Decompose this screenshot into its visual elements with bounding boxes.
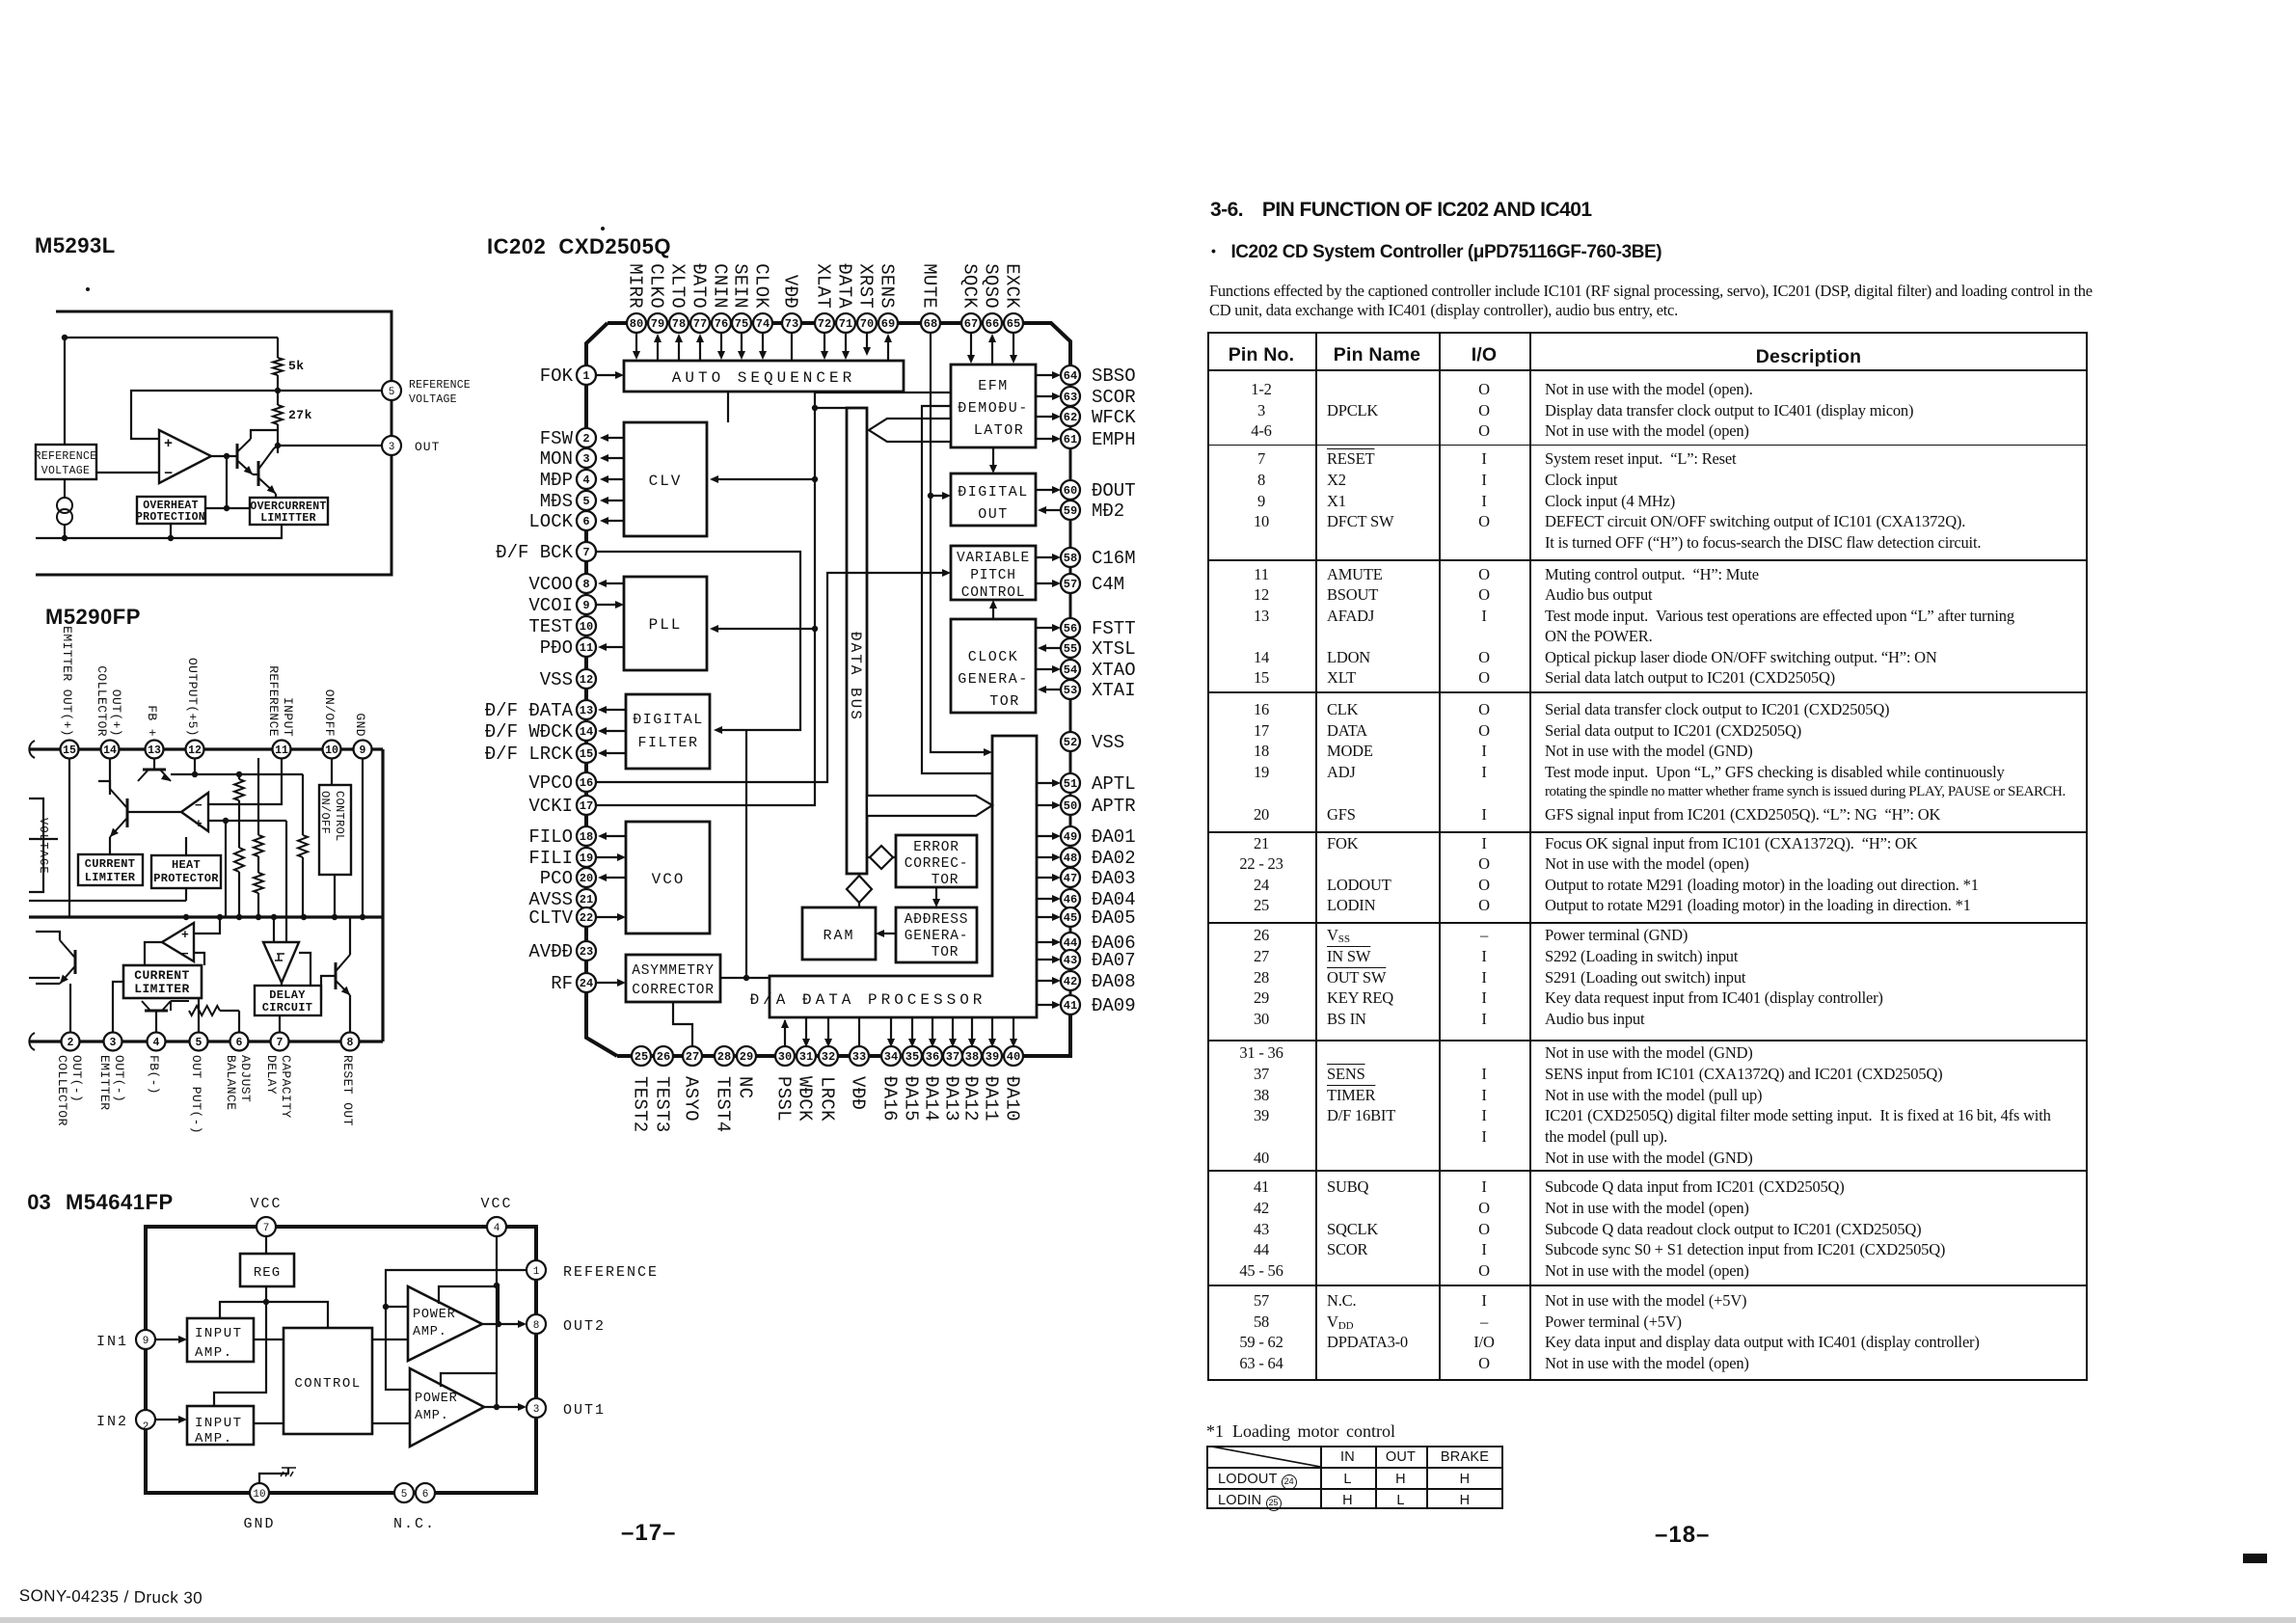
svg-text:COLLECTOR: COLLECTOR xyxy=(95,665,109,737)
pin 6 BALANCE xyxy=(230,1033,249,1051)
label ĐA15 xyxy=(901,1076,922,1122)
svg-text:VCOO: VCOO xyxy=(528,574,573,595)
pin 7 Đ/F BCK xyxy=(577,542,596,561)
label ĐA07 xyxy=(1092,950,1136,971)
svg-text:30: 30 xyxy=(778,1050,792,1064)
label ĐATO xyxy=(689,263,710,309)
pin 5 REFERENCE VOLTAGE xyxy=(382,379,471,406)
svg-text:–17–: –17– xyxy=(621,1520,676,1546)
label ĐOUT xyxy=(1092,480,1136,501)
svg-text:M54641FP: M54641FP xyxy=(66,1190,174,1214)
wire ASYO elbow xyxy=(673,1002,692,1047)
svg-text:Đ/F WĐCK: Đ/F WĐCK xyxy=(485,721,574,743)
svg-text:LATOR: LATOR xyxy=(974,422,1025,439)
svg-text:43: 43 xyxy=(1064,954,1077,967)
svg-text:AMP.: AMP. xyxy=(413,1325,447,1339)
svg-text:−: − xyxy=(195,798,203,813)
wire ref box to op-amp minus xyxy=(96,472,159,473)
svg-text:26: 26 xyxy=(657,1050,670,1064)
label EXCK xyxy=(1002,263,1023,309)
svg-text:CONTROL: CONTROL xyxy=(961,585,1026,601)
svg-text:24: 24 xyxy=(580,977,593,990)
pin 78 XLTO xyxy=(669,313,689,333)
pin 5 OUT PUT(-) xyxy=(190,1033,208,1051)
svg-text:POWER: POWER xyxy=(415,1392,458,1406)
svg-text:SBSO: SBSO xyxy=(1092,365,1136,387)
svg-text:VARIABLE: VARIABLE xyxy=(957,551,1030,566)
pin 36 ĐA14 xyxy=(923,1046,942,1066)
label pin 6 xyxy=(224,1055,253,1110)
svg-text:INPUT: INPUT xyxy=(195,1326,243,1341)
wires clock generator 56-53 xyxy=(1036,624,1062,693)
pin 69 SENS xyxy=(878,313,898,333)
svg-text:76: 76 xyxy=(715,317,728,331)
svg-text:5k: 5k xyxy=(288,359,305,373)
pin 3 EMITTER xyxy=(104,1033,122,1051)
wire pin17 VCKI net xyxy=(596,392,951,805)
svg-text:65: 65 xyxy=(1007,317,1020,331)
svg-text:57: 57 xyxy=(1064,578,1077,591)
wires EFM demod outputs 64-61 xyxy=(1036,371,1061,443)
wire bottom pin rail xyxy=(617,1005,1070,1056)
pin 8 OUT2 xyxy=(527,1314,606,1335)
label ĐA06 xyxy=(1092,933,1136,954)
pin 57 C4M xyxy=(1061,574,1080,593)
svg-text:FILO: FILO xyxy=(528,826,573,848)
pin 70 XRST xyxy=(857,313,877,333)
svg-text:PLL: PLL xyxy=(649,616,683,634)
wire schmitt input xyxy=(274,821,286,942)
pin 37 ĐA13 xyxy=(943,1046,962,1066)
pin 55 XTSL xyxy=(1061,638,1080,658)
svg-text:28: 28 xyxy=(717,1050,731,1064)
wire left branch xyxy=(64,338,66,498)
svg-text:OUT2: OUT2 xyxy=(563,1318,606,1335)
svg-text:HEAT: HEAT xyxy=(172,858,201,872)
label ĐA08 xyxy=(1092,971,1136,992)
svg-text:ĐA03: ĐA03 xyxy=(1092,868,1136,889)
svg-text:TEST4: TEST4 xyxy=(713,1076,734,1133)
pin 71 ĐATA xyxy=(836,313,855,333)
bus arrow EFM to data bus xyxy=(869,419,951,442)
power amp 1 xyxy=(408,1286,482,1361)
svg-text:IN1: IN1 xyxy=(96,1334,128,1350)
svg-text:72: 72 xyxy=(818,317,831,331)
pin 61 EMPH xyxy=(1061,429,1080,448)
label ĐA10 xyxy=(1002,1076,1023,1122)
wire on/off control stubs xyxy=(332,758,335,917)
wire data bus top link xyxy=(812,405,847,411)
pin 35 ĐA15 xyxy=(903,1046,922,1066)
svg-text:AVĐĐ: AVĐĐ xyxy=(528,941,573,962)
svg-text:VOLTAGE: VOLTAGE xyxy=(37,818,50,875)
svg-text:2: 2 xyxy=(68,1037,74,1049)
svg-text:48: 48 xyxy=(1064,852,1077,865)
pin 5 N.C. xyxy=(394,1483,414,1502)
svg-text:AMP.: AMP. xyxy=(195,1431,233,1447)
pin 28 TEST4 xyxy=(715,1046,734,1066)
svg-text:Đ/F BCK: Đ/F BCK xyxy=(496,542,573,563)
loading motor table xyxy=(1206,1446,1503,1509)
svg-text:42: 42 xyxy=(1064,975,1077,988)
resistor R4 horizontal xyxy=(171,1001,239,1015)
svg-text:34: 34 xyxy=(884,1050,898,1064)
svg-text:77: 77 xyxy=(693,317,707,331)
pin 1 REFERENCE xyxy=(527,1260,659,1281)
asymmetry corrector block xyxy=(626,955,720,1002)
CLV block xyxy=(624,422,707,536)
svg-text:N.C.: N.C. xyxy=(393,1516,436,1532)
label TEST2 xyxy=(630,1076,651,1133)
svg-text:TEST2: TEST2 xyxy=(630,1076,651,1133)
svg-text:GND: GND xyxy=(353,713,367,737)
node pin3 junction xyxy=(275,443,383,448)
svg-text:OUT(+): OUT(+) xyxy=(109,690,123,737)
wires VCO pins 18 19 20 22 xyxy=(596,832,626,921)
pin 9 GND xyxy=(354,741,372,759)
pin 12 OUTPUT(+5) xyxy=(186,741,204,759)
diamond connector to error corrector xyxy=(867,846,896,869)
svg-text:RESET OUT: RESET OUT xyxy=(340,1055,355,1126)
wire MUTE net xyxy=(928,332,992,756)
pin 4 MĐP xyxy=(577,470,596,489)
svg-text:ĐA10: ĐA10 xyxy=(1002,1076,1023,1122)
transistor Q1 xyxy=(237,430,278,474)
svg-text:47: 47 xyxy=(1064,872,1077,885)
svg-text:VOLTAGE: VOLTAGE xyxy=(409,393,457,406)
label Đ/F LRCK xyxy=(485,744,574,765)
pin 60 ĐOUT xyxy=(1061,480,1080,500)
svg-text:OUTPUT(+5): OUTPUT(+5) xyxy=(185,658,200,737)
op-amp A1 xyxy=(159,430,211,483)
pin 80 MIRR xyxy=(627,313,646,333)
svg-text:ĐA13: ĐA13 xyxy=(941,1076,962,1122)
svg-text:3: 3 xyxy=(389,442,395,453)
svg-text:PSSL: PSSL xyxy=(773,1076,795,1122)
svg-text:23: 23 xyxy=(580,945,593,959)
svg-text:9: 9 xyxy=(143,1336,149,1347)
svg-text:M5290FP: M5290FP xyxy=(45,605,141,629)
svg-text:OUT PUT(-): OUT PUT(-) xyxy=(189,1055,203,1134)
svg-text:XTSL: XTSL xyxy=(1092,638,1136,660)
wire mid ground rail xyxy=(29,914,383,920)
wires variable pitch 58 57 xyxy=(1036,554,1061,587)
pin 65 EXCK xyxy=(1004,313,1023,333)
pin 43 ĐA07 xyxy=(1061,950,1080,969)
pin 16 VPCO xyxy=(577,772,596,792)
pin 7 DELAY xyxy=(271,1033,289,1051)
svg-text:REFERENCE: REFERENCE xyxy=(409,379,471,392)
svg-text:MIRR: MIRR xyxy=(625,263,646,309)
pin 32 LRCK xyxy=(819,1046,838,1066)
svg-text:27k: 27k xyxy=(288,408,312,422)
wire pin7 BCK net xyxy=(596,552,800,734)
svg-text:SQSO: SQSO xyxy=(981,263,1002,309)
pin 7 VCC xyxy=(250,1196,282,1236)
label NC xyxy=(735,1076,756,1098)
svg-text:PROTECTION: PROTECTION xyxy=(136,511,205,524)
label LOCK xyxy=(528,511,573,532)
wire IN2 arrow xyxy=(155,1416,187,1423)
svg-text:MĐP: MĐP xyxy=(540,470,573,491)
label ASYO xyxy=(681,1076,702,1122)
wire pin16 VPCO net xyxy=(596,569,951,782)
wires pins 67 66 65 to EFM demodulator xyxy=(967,332,1017,365)
pin 42 ĐA08 xyxy=(1061,971,1080,990)
section heading xyxy=(1210,199,1591,222)
pin 11 PĐO xyxy=(577,637,596,657)
svg-text:Đ/F LRCK: Đ/F LRCK xyxy=(485,744,574,765)
svg-text:AĐĐRESS: AĐĐRESS xyxy=(905,912,969,928)
input amp block 1 xyxy=(187,1318,254,1362)
RAM block xyxy=(802,907,876,960)
label EMPH xyxy=(1092,429,1136,450)
svg-text:ĐA11: ĐA11 xyxy=(981,1076,1002,1122)
svg-text:ĐA02: ĐA02 xyxy=(1092,848,1136,869)
svg-text:32: 32 xyxy=(822,1050,835,1064)
svg-text:EMITTER: EMITTER xyxy=(97,1055,112,1110)
pin 2 COLLECTOR xyxy=(62,1033,80,1051)
wire delay to pin7 xyxy=(279,1015,281,1033)
svg-text:RF: RF xyxy=(551,973,573,994)
svg-text:22: 22 xyxy=(580,911,593,925)
svg-text:M5293L: M5293L xyxy=(35,233,116,257)
wire left edge stubs xyxy=(29,839,60,978)
pin 62 WFCK xyxy=(1061,407,1080,426)
svg-text:5: 5 xyxy=(582,495,589,508)
pin 24 RF xyxy=(577,973,596,992)
pin 63 SCOR xyxy=(1061,387,1080,406)
svg-text:XRST: XRST xyxy=(855,263,877,309)
pin 64 SBSO xyxy=(1061,365,1080,385)
svg-text:ON/OFF: ON/OFF xyxy=(322,690,337,737)
svg-text:CURRENT: CURRENT xyxy=(134,968,189,983)
svg-text:CNIN: CNIN xyxy=(710,263,731,309)
label pin 5 xyxy=(189,1055,203,1134)
svg-text:39: 39 xyxy=(986,1050,999,1064)
svg-text:MON: MON xyxy=(540,448,573,470)
svg-text:WĐCK: WĐCK xyxy=(795,1076,816,1122)
error corrector block xyxy=(896,835,977,888)
svg-text:FSTT: FSTT xyxy=(1092,618,1136,639)
label APTR xyxy=(1092,796,1136,817)
svg-text:ĐOUT: ĐOUT xyxy=(1092,480,1136,501)
svg-text:8: 8 xyxy=(347,1037,354,1049)
pin 72 XLAT xyxy=(815,313,834,333)
pin function table frame xyxy=(1207,332,2088,1381)
control block xyxy=(284,1328,372,1434)
label FILI xyxy=(528,848,573,869)
label pin 2 xyxy=(55,1055,84,1126)
label XTAI xyxy=(1092,680,1136,701)
svg-text:14: 14 xyxy=(103,744,117,757)
svg-text:VĐĐ: VĐĐ xyxy=(780,275,801,309)
svg-text:MĐS: MĐS xyxy=(540,491,573,512)
svg-text:VCOI: VCOI xyxy=(528,595,573,616)
svg-text:49: 49 xyxy=(1064,830,1077,844)
wires digital filter pins 13 14 15 xyxy=(598,706,626,757)
label ĐA01 xyxy=(1092,826,1136,848)
label PĐO xyxy=(540,637,573,659)
svg-text:79: 79 xyxy=(651,317,664,331)
svg-text:CLKO: CLKO xyxy=(646,263,667,309)
transistor Q3 top xyxy=(138,758,303,781)
svg-text:RAM: RAM xyxy=(823,928,854,944)
svg-text:56: 56 xyxy=(1064,622,1077,636)
label CLTV xyxy=(528,907,573,929)
svg-text:37: 37 xyxy=(946,1050,959,1064)
svg-text:FILTER: FILTER xyxy=(637,735,698,751)
variable pitch control block xyxy=(951,546,1036,601)
svg-text:LOCK: LOCK xyxy=(528,511,573,532)
svg-text:ĐA09: ĐA09 xyxy=(1092,995,1136,1016)
svg-text:APTL: APTL xyxy=(1092,773,1136,795)
M5290FP title xyxy=(45,605,141,629)
data bus bar xyxy=(847,408,867,874)
label ĐA14 xyxy=(921,1076,942,1122)
wire secondary rail xyxy=(29,900,186,902)
M54641FP title (203 cut at page edge) xyxy=(0,1190,174,1215)
wire overheat to rail xyxy=(170,524,172,538)
svg-text:21: 21 xyxy=(580,893,593,906)
wire heat protector stubs xyxy=(185,837,187,901)
svg-text:PITCH: PITCH xyxy=(970,568,1016,583)
pin 4 VCC xyxy=(480,1196,512,1236)
pin 66 SQSO xyxy=(983,313,1002,333)
svg-text:DELAY: DELAY xyxy=(269,988,306,1002)
VCO block xyxy=(626,822,710,933)
op-amp A3 wires xyxy=(145,917,220,965)
svg-text:FSW: FSW xyxy=(540,428,574,449)
pin 58 C16M xyxy=(1061,548,1080,567)
label FSTT xyxy=(1092,618,1136,639)
svg-text:11: 11 xyxy=(580,641,593,655)
wire feedback to op-amp + xyxy=(131,391,278,439)
wires APTL APTR xyxy=(1037,779,1061,809)
wire right side rail xyxy=(381,749,384,1041)
wire pin2 up xyxy=(69,984,71,1033)
wire IN1 arrow xyxy=(155,1336,187,1343)
svg-text:CORRECTOR: CORRECTOR xyxy=(632,983,715,998)
svg-text:6: 6 xyxy=(582,515,589,528)
svg-text:15: 15 xyxy=(580,747,593,761)
schmitt trigger U2 xyxy=(263,942,299,983)
svg-text:67: 67 xyxy=(964,317,978,331)
wire pin3 up xyxy=(113,982,123,1033)
label Đ/F WĐCK xyxy=(485,721,574,743)
svg-text:AMP.: AMP. xyxy=(195,1345,233,1361)
heat protector block xyxy=(151,855,221,888)
svg-text:7: 7 xyxy=(277,1037,284,1049)
pin 46 ĐA04 xyxy=(1061,889,1080,908)
wires DA01-DA09 xyxy=(1037,832,1061,1009)
svg-text:78: 78 xyxy=(672,317,686,331)
svg-text:CLTV: CLTV xyxy=(528,907,573,929)
svg-text:REFERENCE: REFERENCE xyxy=(563,1264,659,1281)
pin 10 TEST xyxy=(577,616,596,636)
label VSS xyxy=(1092,732,1124,753)
svg-text:CONTROL: CONTROL xyxy=(333,791,346,842)
label AVSS xyxy=(528,889,573,910)
pin 14 Đ/F WĐCK xyxy=(577,721,596,741)
svg-text:−: − xyxy=(181,947,189,961)
svg-text:ĐEMOĐU-: ĐEMOĐU- xyxy=(958,400,1029,417)
svg-text:IC202 CXD2505Q: IC202 CXD2505Q xyxy=(487,234,671,258)
svg-text:VĐĐ: VĐĐ xyxy=(848,1076,869,1110)
svg-text:1: 1 xyxy=(533,1266,540,1278)
table header row xyxy=(1207,344,1315,366)
svg-text:PCO: PCO xyxy=(540,868,573,889)
wire pin9 ground drop xyxy=(362,758,364,917)
pin 79 CLKO xyxy=(648,313,667,333)
svg-text:TOR: TOR xyxy=(989,693,1020,710)
label XTSL xyxy=(1092,638,1136,660)
svg-text:36: 36 xyxy=(926,1050,939,1064)
svg-text:INPUT: INPUT xyxy=(281,697,295,737)
svg-text:SEIN: SEIN xyxy=(730,263,751,309)
label APTL xyxy=(1092,773,1136,795)
pin 1 FOK xyxy=(577,365,596,385)
pin 14 COLLECTOR xyxy=(101,741,120,759)
svg-text:3: 3 xyxy=(110,1037,117,1049)
label pin 12 xyxy=(185,658,200,737)
wire delay circuit feed xyxy=(299,953,311,986)
label FSW xyxy=(540,428,574,449)
svg-text:PROTECTOR: PROTECTOR xyxy=(153,872,219,885)
svg-text:63: 63 xyxy=(1064,391,1077,404)
wires digital out 60 59 xyxy=(1036,486,1062,514)
pin 39 ĐA11 xyxy=(983,1046,1002,1066)
svg-text:41: 41 xyxy=(1064,999,1077,1013)
svg-text:ĐIGITAL: ĐIGITAL xyxy=(633,712,704,728)
svg-text:ASYMMETRY: ASYMMETRY xyxy=(632,963,715,979)
svg-text:FB +: FB + xyxy=(145,705,159,737)
label VCOO xyxy=(528,574,573,595)
svg-text:LIMITER: LIMITER xyxy=(85,871,136,884)
registration dash xyxy=(2243,1554,2267,1563)
svg-text:9: 9 xyxy=(360,744,366,757)
svg-text:ĐA14: ĐA14 xyxy=(921,1076,942,1122)
svg-text:46: 46 xyxy=(1064,893,1077,906)
pin 6 LOCK xyxy=(577,511,596,530)
svg-text:4: 4 xyxy=(153,1037,160,1049)
input amp block 2 xyxy=(187,1406,254,1447)
pin 31 WĐCK xyxy=(797,1046,816,1066)
svg-text:VCC: VCC xyxy=(480,1196,512,1212)
wire REG distribution xyxy=(214,1286,328,1406)
label VĐĐ xyxy=(848,1076,869,1110)
pin 34 ĐA16 xyxy=(881,1046,901,1066)
label ĐA16 xyxy=(879,1076,901,1122)
svg-text:−: − xyxy=(164,466,173,482)
label PSSL xyxy=(773,1076,795,1122)
svg-text:CURRENT: CURRENT xyxy=(85,857,136,871)
svg-text:APTR: APTR xyxy=(1092,796,1136,817)
pin 3 OUT xyxy=(382,436,440,455)
pin 10 ON/OFF xyxy=(323,741,341,759)
svg-text:COLLECTOR: COLLECTOR xyxy=(55,1055,69,1126)
svg-text:73: 73 xyxy=(785,317,798,331)
svg-text:LIMITER: LIMITER xyxy=(134,982,189,996)
svg-text:OUT: OUT xyxy=(978,506,1009,523)
pin 68 MUTE xyxy=(921,313,940,333)
svg-text:58: 58 xyxy=(1064,552,1077,565)
pin 56 FSTT xyxy=(1061,618,1080,637)
svg-text:ĐATA: ĐATA xyxy=(834,263,855,309)
wire pin5 up xyxy=(198,998,200,1033)
label CLOK xyxy=(751,263,772,309)
svg-text:REFERENCE: REFERENCE xyxy=(266,665,281,737)
